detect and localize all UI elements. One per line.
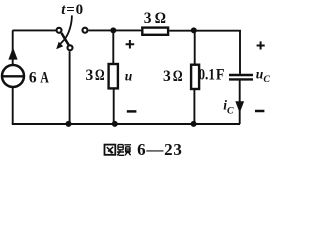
label + of uC [257, 41, 265, 49]
caption hanzi ti (problem) [117, 145, 131, 156]
current iC arrow down [235, 101, 244, 113]
current source arrow up [8, 47, 17, 59]
label 0.1 F [199, 66, 225, 83]
wire top rail R1 to right corner [169, 31, 240, 74]
switch S common contact [68, 45, 73, 50]
svg-text:t=0: t=0 [61, 2, 83, 18]
svg-text:0.1: 0.1 [199, 67, 215, 84]
switch S left contact [57, 28, 62, 33]
wire branch R3 bottom [193, 90, 195, 124]
node dot top R2 [110, 27, 116, 33]
current source Is 6A circle [2, 65, 24, 87]
svg-text:3: 3 [144, 10, 152, 27]
svg-text:3: 3 [86, 67, 94, 84]
svg-text:Ω: Ω [95, 67, 105, 84]
switch S right contact [83, 28, 88, 33]
svg-text:6—23: 6—23 [137, 140, 182, 159]
svg-text:3: 3 [163, 68, 171, 85]
caption hanzi tu (figure) [105, 145, 116, 155]
label + of u [126, 40, 135, 49]
wire branch R3 top [194, 30, 196, 63]
node dot bottom R2 [112, 121, 118, 127]
label 6 A [29, 70, 50, 87]
resistor R3 3ohm vertical [191, 65, 199, 89]
wire left rail lower [12, 87, 14, 123]
switch motion arc [60, 15, 72, 43]
resistor R2 3ohm vertical [109, 64, 118, 88]
switch motion arrowhead [56, 42, 63, 50]
wire switch common down [69, 51, 71, 124]
label minus of u [127, 110, 137, 113]
label 3 ohm middle [163, 68, 183, 85]
svg-text:u: u [125, 68, 133, 83]
svg-text:uC: uC [256, 66, 271, 85]
node dot bottom R3 [191, 121, 197, 127]
wire branch R2 top [112, 30, 114, 63]
wire top rail left segment [13, 29, 56, 31]
switch blade [61, 33, 68, 45]
wire top rail switch to R1 [89, 29, 142, 31]
resistor R1 3ohm horizontal [142, 28, 168, 35]
node dot bottom switch [66, 121, 72, 127]
svg-text:6: 6 [29, 70, 37, 87]
svg-text:A: A [40, 70, 49, 87]
label minus of uC [255, 110, 264, 113]
svg-text:F: F [216, 66, 225, 83]
svg-text:Ω: Ω [155, 10, 166, 27]
node dot top R3 [191, 27, 197, 33]
capacitor C top plate [229, 74, 253, 76]
wire capacitor bottom [239, 81, 241, 125]
label 3 ohm left [86, 67, 105, 84]
wire left rail upper [12, 30, 14, 65]
svg-text:Ω: Ω [173, 68, 183, 85]
wire branch R2 bottom [113, 89, 115, 124]
capacitor C bottom plate [229, 78, 253, 80]
svg-text:iC: iC [223, 98, 234, 117]
wire bottom rail [12, 123, 240, 125]
label 3 ohm top [144, 10, 166, 27]
